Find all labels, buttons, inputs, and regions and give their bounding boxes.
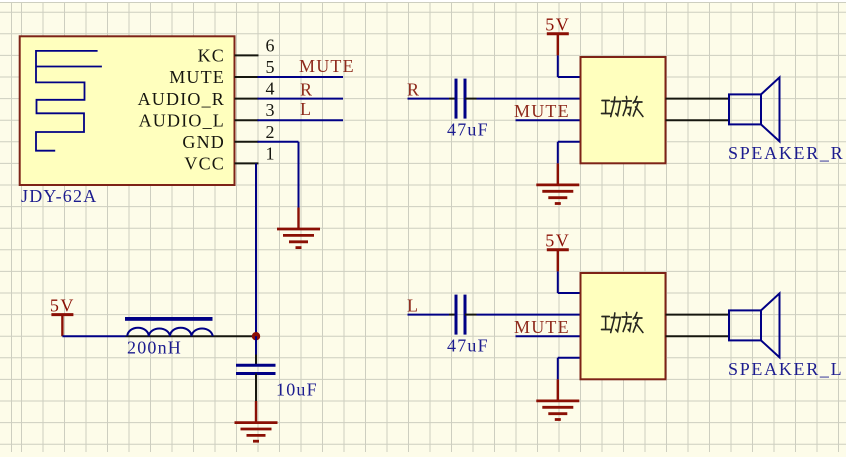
svg-text:MUTE: MUTE: [514, 317, 570, 337]
svg-text:L: L: [407, 296, 419, 316]
svg-text:3: 3: [266, 100, 275, 120]
svg-text:SPEAKER_R: SPEAKER_R: [728, 143, 844, 163]
svg-text:5V: 5V: [545, 15, 570, 35]
svg-text:AUDIO_L: AUDIO_L: [139, 110, 225, 130]
svg-text:10uF: 10uF: [276, 380, 318, 400]
svg-text:JDY-62A: JDY-62A: [21, 186, 97, 206]
svg-text:VCC: VCC: [184, 154, 225, 174]
svg-text:2: 2: [266, 122, 275, 142]
svg-text:47uF: 47uF: [447, 336, 489, 356]
svg-text:SPEAKER_L: SPEAKER_L: [728, 359, 843, 379]
svg-text:GND: GND: [182, 132, 225, 152]
svg-text:47uF: 47uF: [447, 120, 489, 140]
svg-text:MUTE: MUTE: [169, 67, 225, 87]
svg-text:5V: 5V: [50, 295, 75, 315]
svg-text:6: 6: [266, 35, 275, 55]
svg-text:1: 1: [266, 143, 275, 163]
svg-text:4: 4: [266, 79, 275, 99]
svg-text:MUTE: MUTE: [514, 101, 570, 121]
svg-text:R: R: [407, 80, 420, 100]
svg-text:200nH: 200nH: [127, 338, 182, 358]
svg-text:L: L: [300, 99, 312, 119]
svg-text:5: 5: [266, 57, 275, 77]
svg-text:AUDIO_R: AUDIO_R: [138, 89, 225, 109]
svg-text:MUTE: MUTE: [299, 56, 355, 76]
svg-text:5V: 5V: [545, 231, 570, 251]
svg-text:KC: KC: [198, 46, 225, 66]
svg-text:R: R: [300, 80, 313, 100]
